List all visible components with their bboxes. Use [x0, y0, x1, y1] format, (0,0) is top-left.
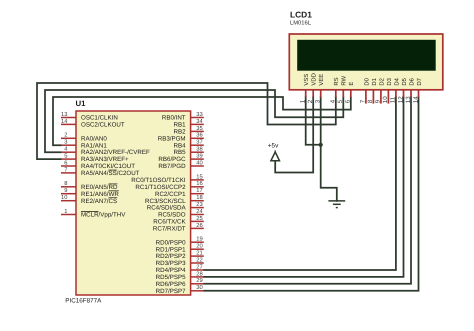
- svg-text:MCLR/Vpp/THV: MCLR/Vpp/THV: [81, 212, 126, 219]
- svg-text:30: 30: [196, 284, 202, 291]
- svg-text:RA2/AN2/VREF-/CVREF: RA2/AN2/VREF-/CVREF: [81, 149, 150, 156]
- svg-text:RE1/AN6/WR: RE1/AN6/WR: [81, 191, 119, 198]
- svg-text:RD6/PSP6: RD6/PSP6: [156, 281, 186, 288]
- svg-text:5: 5: [64, 154, 67, 160]
- svg-text:35: 35: [196, 125, 202, 132]
- svg-text:13: 13: [61, 111, 67, 118]
- svg-text:6: 6: [345, 99, 352, 103]
- svg-text:RD3/PSP3: RD3/PSP3: [156, 260, 186, 267]
- svg-text:D1: D1: [371, 78, 378, 86]
- svg-text:D4: D4: [393, 77, 400, 85]
- svg-text:VEE: VEE: [318, 74, 325, 86]
- svg-text:14: 14: [61, 119, 68, 125]
- svg-text:39: 39: [196, 153, 202, 160]
- svg-text:LM016L: LM016L: [290, 19, 312, 26]
- svg-text:7: 7: [360, 99, 367, 103]
- svg-text:RD0/PSP0: RD0/PSP0: [156, 239, 186, 246]
- svg-text:26: 26: [196, 222, 202, 229]
- svg-text:13: 13: [405, 96, 412, 103]
- svg-text:15: 15: [196, 174, 202, 180]
- svg-text:VDD: VDD: [311, 73, 318, 85]
- svg-text:27: 27: [196, 263, 202, 270]
- svg-text:33: 33: [196, 111, 202, 118]
- svg-text:RC7/RX/DT: RC7/RX/DT: [153, 226, 186, 233]
- svg-text:RC6/TX/CK: RC6/TX/CK: [153, 219, 186, 226]
- svg-text:RA5/AN4/SS/C2OUT: RA5/AN4/SS/C2OUT: [81, 170, 140, 177]
- svg-text:PIC16F877A: PIC16F877A: [65, 298, 102, 305]
- svg-text:16: 16: [196, 180, 202, 187]
- svg-text:RS: RS: [333, 77, 340, 85]
- svg-text:14: 14: [412, 96, 419, 103]
- svg-text:RE2/AN7/CS: RE2/AN7/CS: [81, 198, 117, 205]
- svg-text:VSS: VSS: [303, 74, 310, 86]
- svg-text:OSC2/CLKOUT: OSC2/CLKOUT: [81, 122, 125, 129]
- svg-text:8: 8: [64, 180, 67, 187]
- svg-text:E: E: [348, 82, 355, 86]
- svg-text:25: 25: [196, 215, 202, 222]
- svg-text:D6: D6: [408, 77, 415, 85]
- svg-text:2: 2: [307, 99, 314, 103]
- svg-text:RW: RW: [341, 75, 348, 85]
- svg-text:D2: D2: [378, 78, 385, 86]
- svg-text:5: 5: [337, 99, 344, 103]
- svg-text:RB1: RB1: [174, 122, 187, 129]
- svg-text:12: 12: [397, 96, 404, 103]
- svg-text:17: 17: [196, 188, 202, 194]
- svg-text:4: 4: [330, 99, 337, 103]
- svg-text:24: 24: [196, 208, 203, 215]
- svg-text:D7: D7: [416, 78, 423, 86]
- svg-text:21: 21: [196, 250, 202, 257]
- svg-text:34: 34: [196, 118, 203, 125]
- svg-text:22: 22: [196, 256, 202, 263]
- svg-text:9: 9: [64, 187, 67, 194]
- svg-text:38: 38: [196, 146, 202, 153]
- svg-text:RB5: RB5: [174, 149, 187, 156]
- svg-text:3: 3: [64, 139, 67, 146]
- svg-text:28: 28: [196, 270, 202, 277]
- svg-text:1: 1: [300, 99, 307, 103]
- svg-text:20: 20: [196, 243, 202, 250]
- svg-text:1: 1: [64, 209, 67, 215]
- svg-text:RC2/CCP1: RC2/CCP1: [155, 191, 186, 198]
- svg-text:2: 2: [64, 132, 67, 139]
- svg-text:RB7/PGD: RB7/PGD: [158, 163, 186, 170]
- svg-text:10: 10: [61, 194, 67, 201]
- svg-text:+5v: +5v: [268, 142, 279, 149]
- svg-text:RD7/PSP7: RD7/PSP7: [156, 288, 186, 295]
- svg-text:9: 9: [375, 99, 382, 103]
- svg-text:40: 40: [196, 159, 202, 166]
- svg-text:19: 19: [196, 236, 202, 243]
- svg-text:D3: D3: [386, 77, 393, 85]
- svg-text:23: 23: [196, 201, 202, 208]
- svg-text:6: 6: [64, 159, 67, 166]
- svg-text:LCD1: LCD1: [290, 10, 312, 20]
- svg-text:29: 29: [196, 277, 202, 284]
- svg-text:18: 18: [196, 194, 202, 201]
- svg-text:D0: D0: [363, 77, 370, 85]
- svg-text:U1: U1: [76, 99, 87, 108]
- svg-text:8: 8: [367, 99, 374, 103]
- svg-text:7: 7: [64, 167, 67, 173]
- svg-text:37: 37: [196, 139, 202, 146]
- svg-text:D5: D5: [401, 77, 408, 85]
- svg-text:36: 36: [196, 132, 202, 139]
- svg-text:3: 3: [315, 99, 322, 103]
- svg-text:10: 10: [382, 96, 389, 103]
- svg-text:11: 11: [390, 96, 397, 103]
